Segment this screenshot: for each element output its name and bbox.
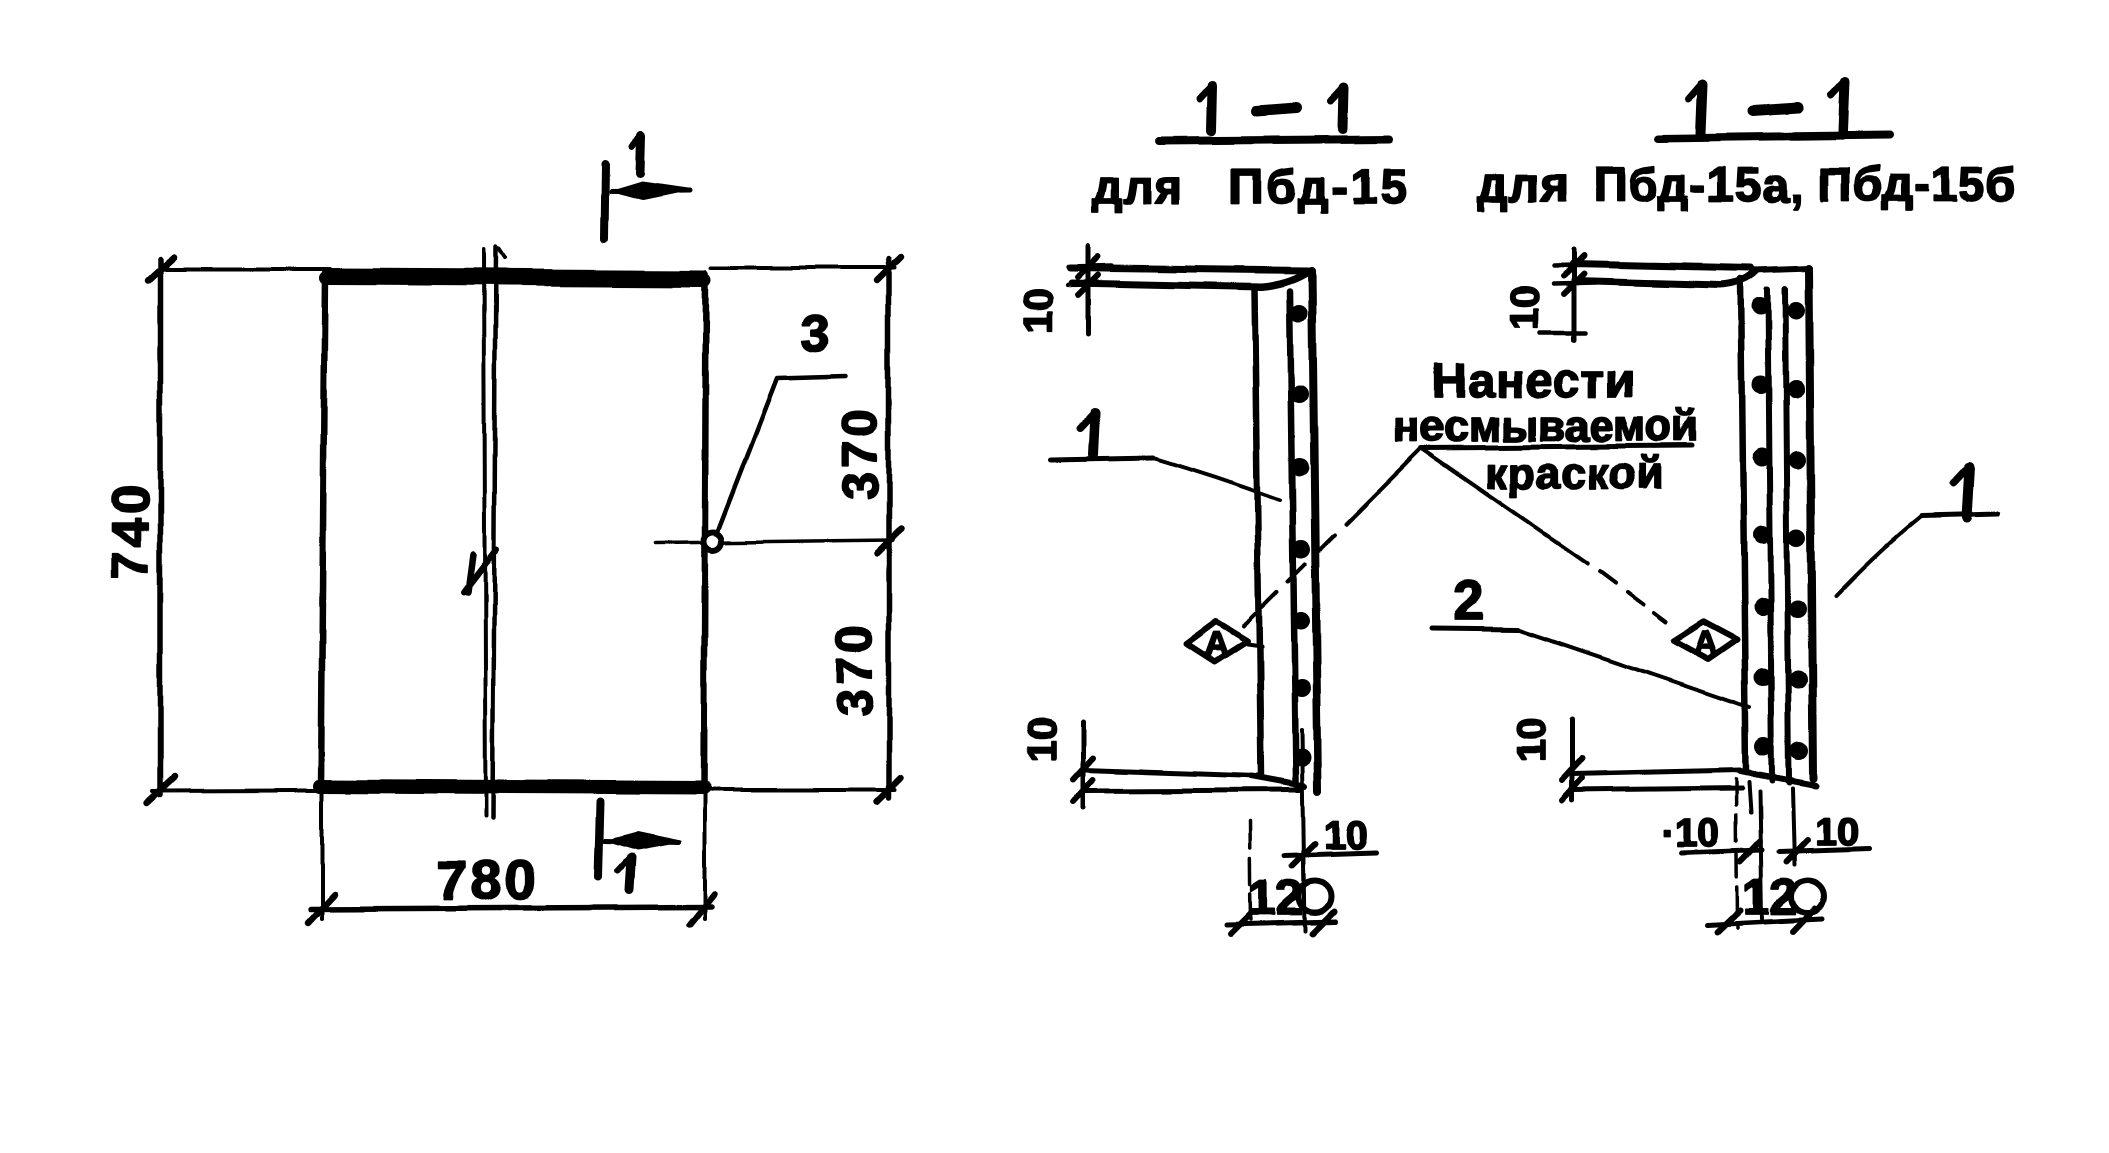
left section bottom-left 10 dim xyxy=(1081,722,1086,808)
right section title underline xyxy=(1659,135,1889,138)
svg-text:10: 10 xyxy=(1503,286,1547,331)
370 bottom extension xyxy=(710,788,895,792)
section mark 1 (bottom) xyxy=(599,802,601,877)
leader for item 3 xyxy=(717,376,846,533)
svg-text:10: 10 xyxy=(1510,718,1554,763)
left section title underline xyxy=(1159,139,1390,141)
centerline arrow xyxy=(464,549,497,592)
panel front view: top edge xyxy=(326,278,705,280)
left section bottom closing xyxy=(1251,776,1305,786)
right section top flange xyxy=(1573,264,1752,268)
370 tick top xyxy=(877,257,901,281)
left section top flange xyxy=(1070,268,1308,271)
370 tick bottom xyxy=(877,778,901,802)
svg-text:А: А xyxy=(1204,626,1229,664)
right section right outer line L4 xyxy=(1809,268,1813,778)
left section bottom flange lines xyxy=(1084,770,1258,776)
right section top closing xyxy=(1755,268,1810,270)
left section top 10 dim xyxy=(1086,246,1091,333)
left section diamond A xyxy=(1186,622,1247,662)
right section line L2 xyxy=(1768,289,1772,780)
svg-text:несмываемой: несмываемой xyxy=(1393,402,1699,451)
dimension 780: tick right xyxy=(690,894,715,925)
left section title 1-1 xyxy=(1211,86,1212,131)
svg-text:10: 10 xyxy=(1020,718,1064,763)
right section top 10 dim xyxy=(1572,250,1577,340)
370 tick middle xyxy=(877,529,901,553)
panel front view: left edge xyxy=(321,273,325,789)
left section inner line xyxy=(1290,291,1296,782)
dimension 780: tick left xyxy=(308,894,335,923)
svg-text:2: 2 xyxy=(1453,568,1484,631)
right section title 1-1 xyxy=(1701,84,1703,133)
svg-text:12: 12 xyxy=(1248,870,1304,926)
svg-text:·10: ·10 xyxy=(1662,811,1720,855)
dimension 780: dim line xyxy=(310,907,712,909)
right section bottom closing xyxy=(1740,771,1816,785)
right section bottom flange lines xyxy=(1572,770,1740,774)
right section line L3 xyxy=(1785,288,1789,782)
right section anchor dots left column xyxy=(1752,297,1773,756)
svg-text:Пбд-15: Пбд-15 xyxy=(1229,161,1410,214)
dimension 740: top extension xyxy=(160,267,330,271)
paint note underline xyxy=(1421,446,1692,448)
dimension 780: right extension xyxy=(703,792,707,919)
svg-text:3: 3 xyxy=(801,305,830,363)
370 top extension xyxy=(712,266,895,270)
right section web line L1 xyxy=(1741,279,1746,772)
right dimension line 370+370 xyxy=(886,259,892,798)
left section label 1 xyxy=(1093,414,1095,455)
right section bottom extension lines xyxy=(1760,791,1762,920)
left section bottom extension line xyxy=(1302,730,1305,931)
panel front view: right edge xyxy=(704,274,706,789)
right section anchor dots right column xyxy=(1787,301,1808,760)
marker circle (item 3) xyxy=(704,532,722,550)
svg-text:370: 370 xyxy=(827,621,883,716)
dimension 740: bottom extension xyxy=(152,790,470,791)
right section diamond A xyxy=(1673,622,1737,660)
paint note leader right (to right diamond) xyxy=(1421,448,1587,563)
left section web line xyxy=(1255,289,1261,776)
dimension 780: left extension xyxy=(320,792,324,919)
label 1 (right section) xyxy=(1966,468,1969,518)
dimension 740: dim line xyxy=(157,259,163,795)
svg-text:10: 10 xyxy=(1017,289,1061,334)
svg-text:Пбд-15а, Пбд-15б: Пбд-15а, Пбд-15б xyxy=(1593,159,2018,212)
svg-text:А: А xyxy=(1693,625,1718,663)
svg-text:370: 370 xyxy=(832,404,888,499)
panel front view: bottom edge xyxy=(320,786,704,788)
dimension 740: tick top xyxy=(148,257,174,281)
dimension 740: tick bottom xyxy=(146,777,174,803)
left section right outer line xyxy=(1312,271,1318,791)
370 middle extension line xyxy=(655,540,893,543)
svg-text:для: для xyxy=(1092,161,1184,214)
svg-text:краской: краской xyxy=(1485,449,1665,498)
svg-text:740: 740 xyxy=(102,482,160,581)
paint note leader left (to left diamond) xyxy=(1345,448,1421,524)
panel joint centerline (double) xyxy=(484,250,486,816)
section mark 1 (top) xyxy=(604,164,605,239)
svg-text:для: для xyxy=(1478,159,1570,212)
right section bottom-left 10 dim xyxy=(1570,719,1575,800)
svg-text:Нанести: Нанести xyxy=(1432,355,1635,408)
svg-text:780: 780 xyxy=(437,848,539,911)
left section anchor dots xyxy=(1290,305,1311,767)
